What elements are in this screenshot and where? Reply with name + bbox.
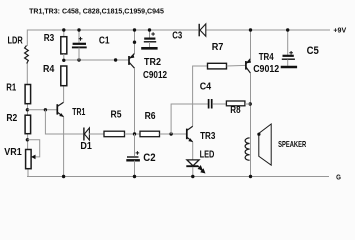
capacitor C5 (electrolytic to ground) bbox=[282, 30, 295, 66]
wire TR4 emitter to rail bbox=[250, 30, 252, 59]
node junction C2 / ground rail bbox=[133, 175, 136, 178]
svg-text:R2: R2 bbox=[6, 113, 17, 124]
inductor speaker coil bbox=[245, 138, 250, 160]
svg-text:R4: R4 bbox=[43, 64, 55, 75]
transistor TR4 (PNP) bbox=[246, 59, 251, 74]
resistor R4 bbox=[61, 66, 67, 86]
wire top rail right segment bbox=[206, 29, 331, 31]
node junction on TR2 emitter line bbox=[133, 41, 136, 44]
capacitor C3 (electrolytic to ground) bbox=[144, 30, 156, 48]
ground bar (C3) bbox=[141, 47, 157, 50]
svg-text:G: G bbox=[336, 172, 341, 181]
wire left column vertical segments bbox=[26, 30, 29, 178]
svg-text:R8: R8 bbox=[230, 105, 241, 116]
svg-text:R6: R6 bbox=[145, 111, 156, 122]
wire TR1 collector to R4 bbox=[63, 86, 65, 103]
svg-text:TR3: TR3 bbox=[200, 131, 216, 142]
wire R6 to TR3 base bbox=[160, 133, 187, 135]
diode D1 bbox=[84, 128, 90, 141]
svg-text:C9012: C9012 bbox=[143, 70, 167, 81]
potentiometer VR1 bbox=[26, 140, 40, 169]
wire TR2 collector down to R5/R6 junction bbox=[134, 68, 136, 135]
node junction C5 top on rail bbox=[286, 28, 289, 31]
node junction mid wire bbox=[114, 58, 117, 61]
node junction R1/R2 base tap bbox=[26, 108, 29, 111]
resistor R1 bbox=[25, 85, 31, 104]
node junction C4 branch bbox=[169, 132, 172, 135]
wire TR1 emitter to ground rail bbox=[63, 117, 65, 177]
diode series rail diode bbox=[199, 24, 206, 37]
svg-text:C3: C3 bbox=[172, 30, 182, 41]
node junction C3 top on rail bbox=[148, 28, 151, 31]
node junction C1 bottom bbox=[77, 58, 80, 61]
node junction TR2 emitter on rail bbox=[133, 28, 136, 31]
node junction R2/VR1 wiper tap bbox=[26, 138, 29, 141]
wire top rail left segment bbox=[27, 29, 198, 31]
capacitor C4 (coupling) bbox=[171, 99, 226, 134]
resistor R3 bbox=[61, 30, 67, 61]
node junction base/D1 branch bbox=[44, 108, 47, 111]
svg-text:SPEAKER: SPEAKER bbox=[278, 139, 306, 149]
node junction R3 top on rail bbox=[62, 28, 65, 31]
svg-text:R5: R5 bbox=[111, 110, 122, 121]
wire TR3 emitter to LED bbox=[192, 142, 194, 160]
resistor R5 bbox=[104, 131, 125, 137]
wire node R3/C1 to TR2 base bbox=[64, 59, 129, 61]
svg-text:C1: C1 bbox=[99, 36, 110, 47]
svg-text:TR2: TR2 bbox=[144, 57, 161, 68]
node junction C1 top on rail bbox=[77, 28, 80, 31]
ground bar (C5) bbox=[281, 66, 297, 69]
svg-text:TR4: TR4 bbox=[259, 52, 274, 63]
svg-text:TR1: TR1 bbox=[72, 107, 85, 118]
wire branch down to D1 row bbox=[45, 110, 83, 134]
node junction TR1 emitter / ground rail bbox=[62, 175, 65, 178]
node junction TR2 collector / C2 / R5R6 bbox=[133, 132, 136, 135]
svg-text:+9V: +9V bbox=[333, 25, 346, 34]
capacitor C2 (electrolytic) bbox=[126, 134, 140, 177]
svg-text:R1: R1 bbox=[6, 83, 16, 94]
node junction TR4 emitter on rail bbox=[249, 28, 252, 31]
resistor R7 bbox=[193, 63, 246, 126]
svg-text:C5: C5 bbox=[307, 45, 319, 57]
svg-text:C2: C2 bbox=[143, 152, 155, 164]
speaker icon bbox=[257, 124, 271, 165]
transistor TR2 (PNP) bbox=[129, 53, 135, 68]
node junction TR4 collector / R8 bbox=[249, 102, 252, 105]
node junction LED / ground rail bbox=[191, 175, 194, 178]
svg-text:D1: D1 bbox=[80, 141, 92, 152]
svg-text:R3: R3 bbox=[44, 33, 55, 44]
resistor R6 bbox=[140, 131, 160, 137]
svg-text:TR1,TR3: C458, C828,C1815,C195: TR1,TR3: C458, C828,C1815,C1959,C945 bbox=[29, 7, 164, 16]
LED bbox=[186, 160, 204, 177]
node junction R3 bottom bbox=[62, 59, 65, 62]
wire R5 to R6 bbox=[125, 133, 141, 135]
transistor TR1 (NPN) bbox=[57, 102, 64, 117]
svg-text:LDR: LDR bbox=[8, 36, 24, 47]
wire R8 to TR4 collector line bbox=[245, 103, 251, 105]
capacitor C1 (electrolytic) bbox=[72, 30, 87, 61]
wire TR2 emitter to rail bbox=[134, 30, 136, 54]
svg-text:C9012: C9012 bbox=[253, 64, 279, 75]
wire TR4 collector down to speaker coil and ground bbox=[250, 73, 252, 177]
node junction coil / ground rail bbox=[249, 175, 252, 178]
svg-text:R7: R7 bbox=[212, 42, 224, 53]
resistor R2 bbox=[25, 115, 31, 134]
wire D1 to R5 bbox=[89, 133, 104, 135]
resistor R8 bbox=[226, 101, 245, 106]
LDR (zigzag symbol) bbox=[25, 46, 29, 64]
wire bottom ground rail bbox=[27, 176, 329, 178]
wire TR1 base wire bbox=[27, 109, 56, 111]
transistor TR3 (NPN) bbox=[187, 126, 193, 142]
svg-text:VR1: VR1 bbox=[4, 147, 22, 158]
svg-text:LED: LED bbox=[200, 150, 215, 161]
svg-text:C4: C4 bbox=[200, 82, 212, 93]
